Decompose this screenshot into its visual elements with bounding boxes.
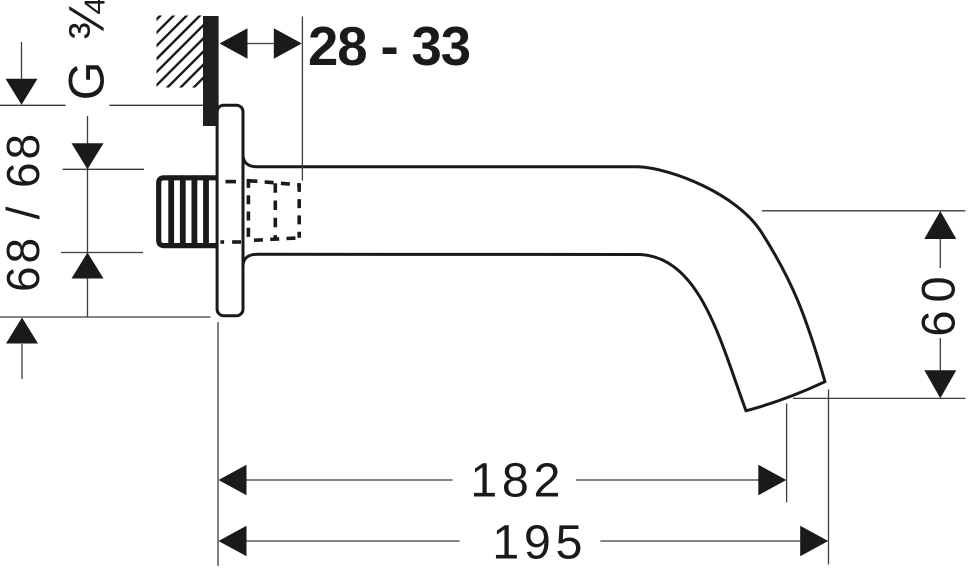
svg-text:195: 195 xyxy=(492,515,587,569)
wall surface bar xyxy=(203,16,219,126)
195 right ext line xyxy=(828,390,830,565)
ext line plate top level xyxy=(0,104,66,106)
wall hatching xyxy=(84,11,270,92)
28-33 dim line xyxy=(247,43,275,45)
svg-text:182: 182 xyxy=(470,453,565,507)
threaded pipe nipple G3/4 xyxy=(159,178,222,246)
ext line spout bottom xyxy=(61,252,143,254)
mid dim line 68/68 xyxy=(87,116,89,317)
hidden thread dashes through plate xyxy=(220,182,241,242)
28-33 right extension line xyxy=(301,17,303,181)
ext line plate bottom level xyxy=(0,316,211,318)
svg-text:G ¾: G ¾ xyxy=(59,0,115,100)
spout body xyxy=(243,156,825,411)
60 up arrow xyxy=(924,211,956,239)
svg-text:60: 60 xyxy=(911,268,964,336)
ext line spout top xyxy=(63,168,145,170)
svg-text:68 / 68: 68 / 68 xyxy=(0,131,49,292)
195 dim line xyxy=(246,540,460,542)
down arrow at plate top (left outer dim) xyxy=(6,79,38,105)
28-33 left arrow xyxy=(220,28,248,59)
182 right arrow xyxy=(758,465,786,496)
28-33 right arrow xyxy=(274,28,302,59)
60 down arrow xyxy=(924,370,956,398)
up arrow at plate bottom (left outer dim) xyxy=(6,318,38,344)
182 left arrow xyxy=(219,465,247,496)
pipe thread ribs xyxy=(171,175,206,247)
182 right ext line xyxy=(786,404,788,503)
svg-text:28 - 33: 28 - 33 xyxy=(308,16,470,77)
down arrow at spout top (68/68) xyxy=(72,143,104,169)
left outer dim line (x=21.5) xyxy=(21,42,23,79)
60 dim line xyxy=(939,212,941,268)
195 left arrow xyxy=(219,526,247,557)
60 bottom ext line xyxy=(793,397,966,399)
182 dim line xyxy=(246,479,453,481)
escutcheon wall plate xyxy=(217,105,243,316)
up arrow at spout bottom (68/68) xyxy=(72,253,104,279)
182/195 left ext line xyxy=(217,322,219,566)
195 right arrow xyxy=(800,526,828,557)
60 top ext line xyxy=(762,210,966,212)
hidden spout socket (dashed) xyxy=(248,179,299,240)
